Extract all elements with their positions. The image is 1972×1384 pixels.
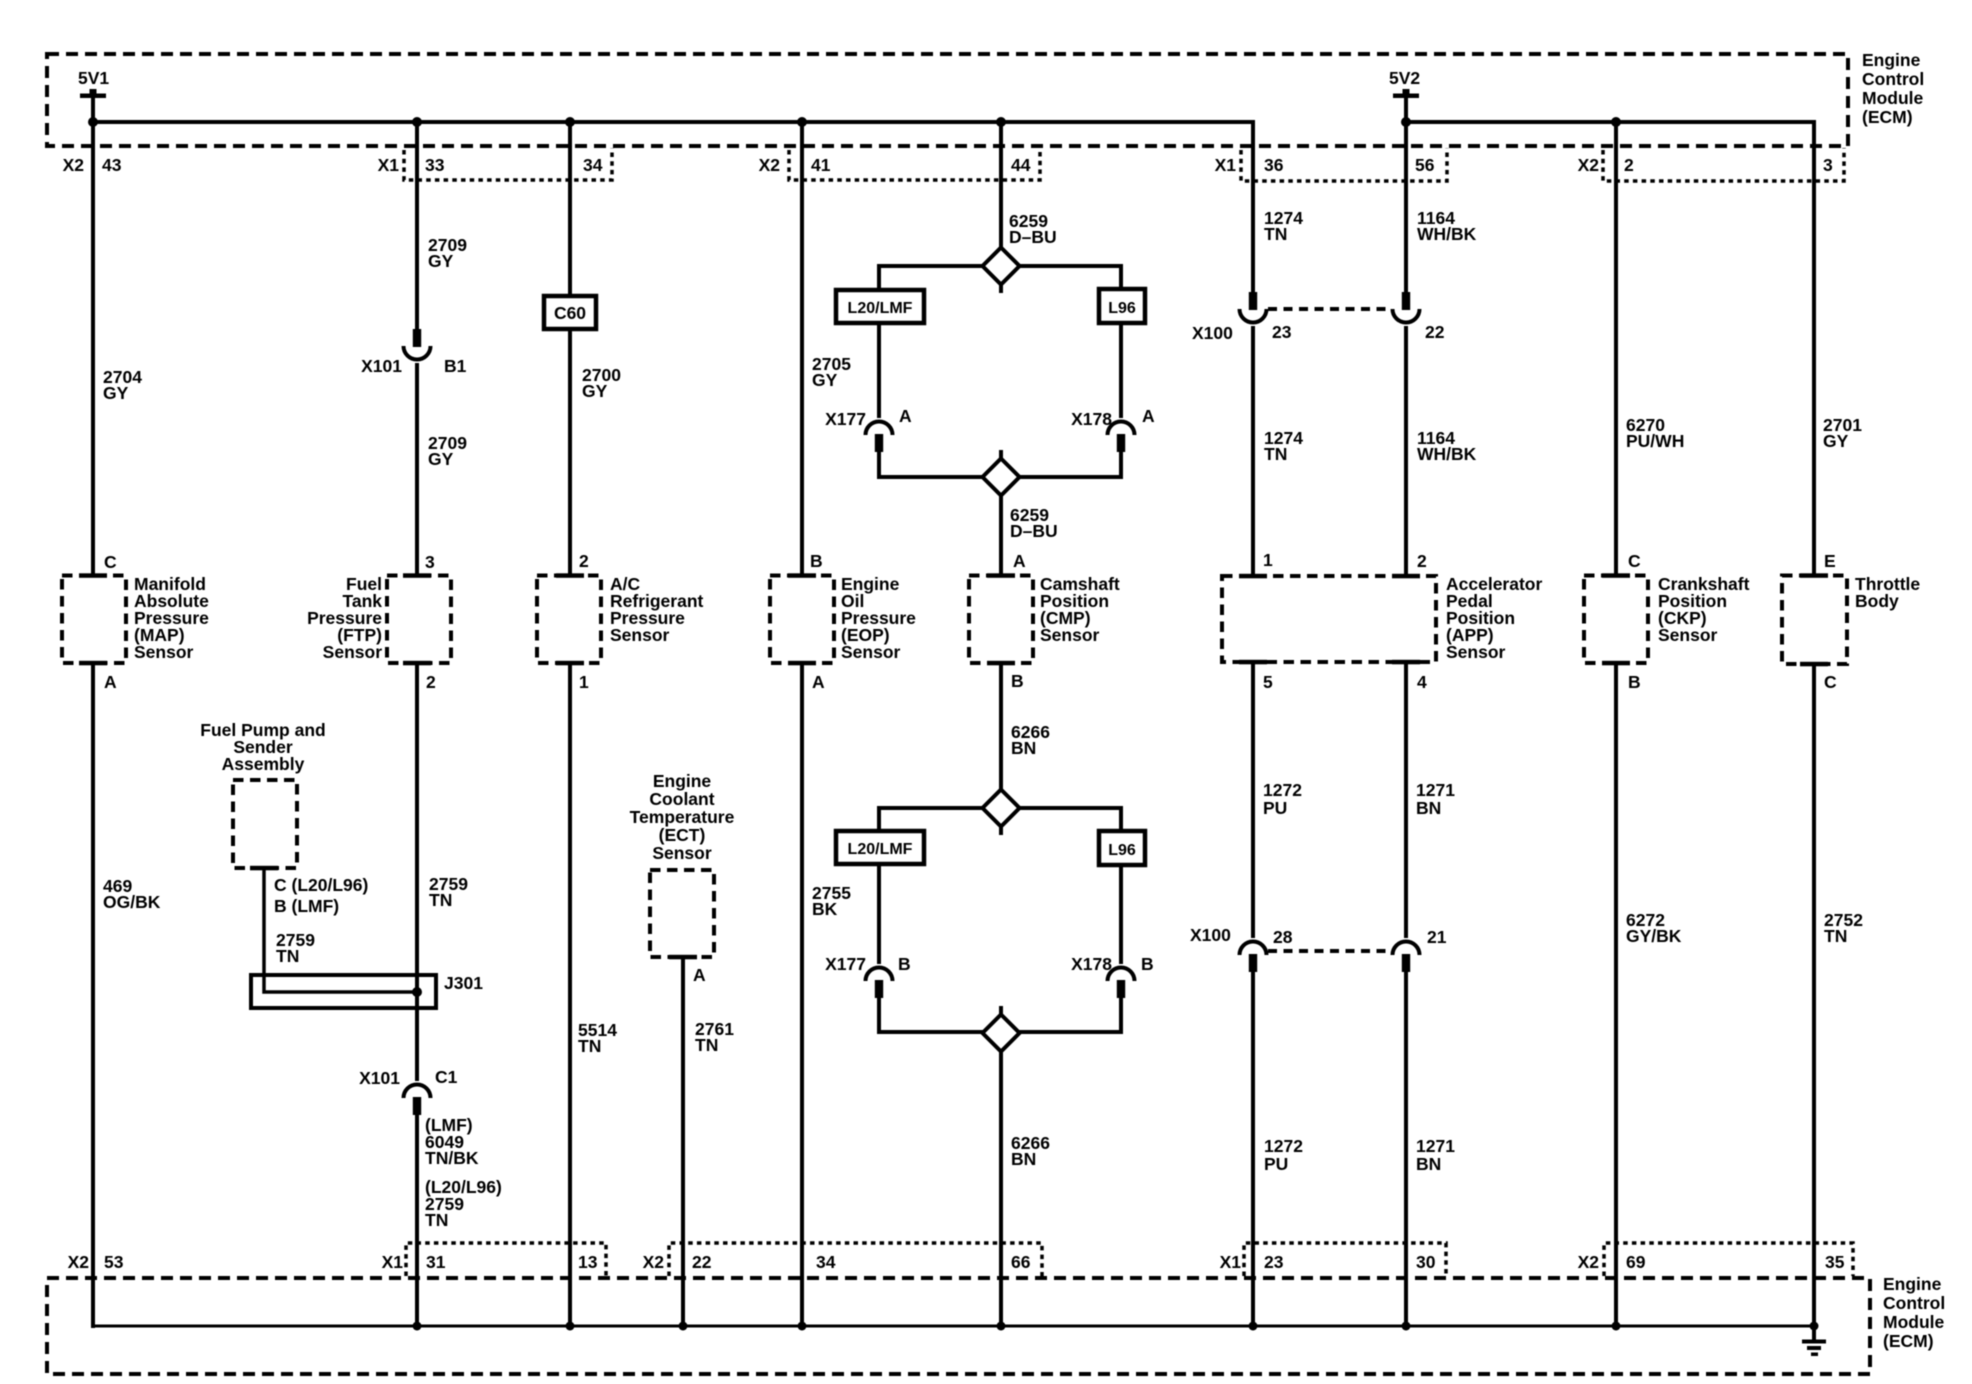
svg-text:PU/WH: PU/WH — [1626, 431, 1684, 451]
wire 5V2 feed to bus — [1404, 96, 1408, 124]
inline connector X100 pin 21 — [1393, 941, 1420, 955]
connector group dotted box pins 33-34 — [404, 148, 612, 180]
engine option box L20/LMF (upper) — [836, 290, 924, 323]
pin terminal tick CKP top — [1602, 573, 1630, 578]
pin terminal tick APP pin4 — [1392, 660, 1420, 665]
svg-text:34: 34 — [583, 155, 603, 175]
svg-text:X1: X1 — [1220, 1252, 1242, 1272]
wire from X178 B to splice diamond — [1119, 995, 1123, 1032]
pin terminal tick CMP top — [987, 573, 1015, 578]
svg-text:23: 23 — [1264, 1252, 1284, 1272]
svg-text:2: 2 — [1417, 551, 1427, 571]
svg-text:30: 30 — [1416, 1252, 1436, 1272]
svg-text:C: C — [1628, 551, 1641, 571]
wire 2700 GY from ECM pin 34 to C60 — [568, 122, 572, 298]
svg-text:GY: GY — [428, 251, 454, 271]
inline connector X100 pin 22 — [1402, 292, 1410, 310]
FTP sensor dashed box — [387, 576, 451, 664]
svg-text:B1: B1 — [444, 356, 467, 376]
svg-text:C1: C1 — [435, 1067, 458, 1087]
node junction dot bottom bus AC — [566, 1322, 575, 1331]
svg-text:Assembly: Assembly — [222, 754, 305, 774]
svg-text:A: A — [899, 406, 912, 426]
svg-text:Module: Module — [1862, 88, 1924, 108]
svg-text:(ECT): (ECT) — [659, 825, 706, 845]
svg-text:Sensor: Sensor — [1040, 625, 1100, 645]
connector group dotted box pins 36-56 — [1241, 148, 1447, 181]
bus wire from 5V2 (y=122) — [1406, 120, 1814, 124]
svg-text:C: C — [104, 552, 117, 572]
wire 5V1 feed to bus — [91, 96, 95, 124]
wire 1272 PU from X100 28 to ECM pin 23 — [1251, 969, 1255, 1328]
pin terminal tick MAP bottom — [79, 661, 107, 666]
svg-text:28: 28 — [1273, 927, 1293, 947]
inline connector X101 pin B1 — [413, 329, 421, 347]
svg-text:41: 41 — [811, 155, 831, 175]
svg-text:TN: TN — [425, 1210, 448, 1230]
node junction dot bottom bus APP4 — [1402, 1322, 1411, 1331]
throttle body dashed box — [1782, 576, 1847, 665]
node junction dot bottom bus EOP — [798, 1322, 807, 1331]
svg-text:C60: C60 — [554, 303, 586, 323]
svg-text:E: E — [1824, 551, 1836, 571]
svg-text:B: B — [898, 954, 911, 974]
svg-text:53: 53 — [104, 1252, 124, 1272]
connector group dotted box pins 69-35 — [1604, 1243, 1853, 1276]
ground wire stub — [1812, 1326, 1816, 1341]
svg-text:OG/BK: OG/BK — [103, 892, 161, 912]
svg-text:X100: X100 — [1190, 925, 1231, 945]
svg-text:TN: TN — [429, 890, 452, 910]
wire 2709 GY from X101 to FTP sensor — [415, 363, 419, 576]
node junction dot bus at EOP wire — [797, 117, 807, 127]
svg-text:Sensor: Sensor — [610, 625, 670, 645]
svg-text:GY/BK: GY/BK — [1626, 926, 1682, 946]
svg-text:B: B — [1141, 954, 1154, 974]
svg-text:56: 56 — [1415, 155, 1435, 175]
svg-text:C (L20/L96): C (L20/L96) — [274, 875, 368, 895]
svg-text:WH/BK: WH/BK — [1417, 444, 1477, 464]
svg-text:X178: X178 — [1071, 954, 1112, 974]
wire 6266 BN from CMP sensor to splice diamond — [999, 663, 1003, 835]
pin terminal tick APP pin5 — [1239, 660, 1267, 665]
wire 469 OG/BK from MAP sensor to ECM pin 53 — [91, 663, 95, 1328]
wire 1274 TN from ECM pin 36 to X100 pin 23 — [1251, 120, 1255, 293]
svg-text:TN: TN — [578, 1036, 601, 1056]
wire 2701 GY from ECM pin 3 to throttle body — [1812, 120, 1816, 575]
svg-text:B: B — [810, 551, 823, 571]
pin terminal tick MAP top — [79, 573, 107, 578]
engine option box L96 (upper) — [1099, 289, 1145, 323]
svg-text:Sensor: Sensor — [841, 642, 901, 662]
svg-text:X2: X2 — [63, 155, 85, 175]
svg-text:5V1: 5V1 — [78, 68, 109, 88]
ECM bottom module dashed box — [47, 1278, 1870, 1374]
splice diamond lower circuit 1 — [983, 459, 1020, 496]
connector C60 box — [544, 296, 596, 329]
pin terminal tick EOP bottom — [788, 661, 816, 666]
node junction dot bottom bus TB — [1810, 1322, 1819, 1331]
wire branch left lower (circuit 1) — [879, 475, 983, 477]
inline connector X177 pin B — [866, 967, 893, 981]
svg-text:PU: PU — [1263, 798, 1287, 818]
node junction dot bus at FTP wire — [412, 117, 422, 127]
svg-text:33: 33 — [425, 155, 445, 175]
pin terminal tick AC bottom — [556, 661, 584, 666]
svg-text:35: 35 — [1825, 1252, 1845, 1272]
pin terminal tick TB bottom — [1800, 662, 1828, 667]
svg-text:Engine: Engine — [653, 771, 712, 791]
wire branch left lower (circuit 2) — [879, 1030, 983, 1032]
svg-text:3: 3 — [1823, 155, 1833, 175]
svg-text:Temperature: Temperature — [630, 807, 735, 827]
svg-text:Control: Control — [1862, 69, 1924, 89]
wire 2755 BK from EOP sensor to ECM pin 34 — [800, 663, 804, 1328]
svg-text:BN: BN — [1011, 1149, 1036, 1169]
splice diamond upper circuit 1 — [983, 248, 1020, 285]
wire 2700 GY from C60 to AC sensor — [568, 329, 572, 576]
inline connector X178 pin A — [1108, 422, 1135, 436]
inline connector X101 pin C1 — [404, 1085, 431, 1099]
wire 1164 WH/BK from ECM pin 56 to X100 pin 22 — [1404, 122, 1408, 293]
wire 2752 TN from throttle body to ECM pin 35 — [1812, 664, 1816, 1328]
svg-text:44: 44 — [1011, 155, 1031, 175]
svg-text:X178: X178 — [1071, 409, 1112, 429]
svg-text:5V2: 5V2 — [1389, 68, 1420, 88]
pin terminal tick ECT bottom — [669, 955, 697, 960]
svg-text:34: 34 — [816, 1252, 836, 1272]
EOP sensor dashed box — [770, 576, 834, 664]
node junction dot 5V2 bus at APP-2 wire — [1401, 117, 1411, 127]
svg-text:X2: X2 — [1578, 1252, 1600, 1272]
wire 6272 GY/BK from CKP sensor to ECM pin 69 — [1614, 663, 1618, 1328]
svg-text:B: B — [1011, 671, 1024, 691]
svg-text:GY: GY — [428, 449, 454, 469]
wire 6259 D-BU from ECM pin 44 to splice diamond — [999, 122, 1003, 293]
pin terminal tick TB top — [1800, 573, 1828, 578]
wire branch left upper (circuit 2) — [879, 808, 983, 833]
svg-text:Engine: Engine — [1862, 50, 1921, 70]
svg-text:1272: 1272 — [1264, 1136, 1303, 1156]
wire 6266 BN from lower splice diamond to ECM pin 66 — [999, 1006, 1003, 1328]
svg-text:B: B — [1628, 672, 1641, 692]
splice diamond lower circuit 2 — [983, 1015, 1020, 1052]
svg-text:X100: X100 — [1192, 323, 1233, 343]
svg-text:GY: GY — [582, 381, 608, 401]
node junction dot bottom bus CKP — [1612, 1322, 1621, 1331]
svg-text:X2: X2 — [643, 1252, 665, 1272]
svg-text:X2: X2 — [68, 1252, 90, 1272]
svg-text:A: A — [104, 672, 117, 692]
svg-text:22: 22 — [692, 1252, 712, 1272]
svg-text:22: 22 — [1425, 322, 1445, 342]
svg-text:A: A — [1013, 551, 1026, 571]
splice diamond upper circuit 2 — [983, 790, 1020, 827]
wire 1272 PU from APP pin 5 to X100 pin 28 — [1251, 662, 1255, 938]
pin terminal tick APP pin2 — [1392, 574, 1420, 579]
svg-text:36: 36 — [1264, 155, 1284, 175]
svg-text:X1: X1 — [378, 155, 400, 175]
engine option box L96 (lower) — [1099, 831, 1145, 865]
node junction dot bottom bus APP5 — [1249, 1322, 1258, 1331]
svg-text:TN: TN — [1264, 224, 1287, 244]
svg-text:(ECM): (ECM) — [1883, 1331, 1934, 1351]
svg-text:D–BU: D–BU — [1009, 227, 1057, 247]
ECT sensor dashed box — [650, 870, 714, 957]
svg-text:A: A — [693, 965, 706, 985]
pin terminal tick CKP bottom — [1602, 661, 1630, 666]
svg-text:31: 31 — [426, 1252, 446, 1272]
MAP sensor dashed box — [62, 576, 126, 664]
pin terminal tick FTP top — [403, 573, 431, 578]
svg-text:13: 13 — [578, 1252, 598, 1272]
svg-text:23: 23 — [1272, 322, 1292, 342]
svg-text:TN: TN — [276, 946, 299, 966]
bottom return bus wire — [93, 1325, 1814, 1328]
power feed 5V2 symbol — [1393, 94, 1419, 99]
wire branch right lower (circuit 2) — [1019, 1030, 1121, 1032]
svg-text:1: 1 — [1263, 550, 1273, 570]
svg-text:BN: BN — [1011, 738, 1036, 758]
pin terminal tick EOP top — [788, 573, 816, 578]
svg-text:C: C — [1824, 672, 1837, 692]
AC refrigerant pressure sensor dashed box — [537, 576, 601, 664]
node junction dot J301 — [412, 987, 422, 997]
connector group dotted box pins 22-34-66 — [669, 1243, 1042, 1276]
wire 2705 GY from ECM pin 41 to EOP sensor — [800, 122, 804, 576]
wire 1271 BN from X100 21 to ECM pin 30 — [1404, 969, 1408, 1328]
wire 1274 TN from X100 to APP sensor pin 1 — [1251, 326, 1255, 576]
splice J301 box — [251, 975, 436, 1008]
svg-text:4: 4 — [1417, 672, 1427, 692]
connector group dotted box pins 41-44 — [789, 148, 1040, 180]
svg-text:X1: X1 — [382, 1252, 404, 1272]
svg-text:Sensor: Sensor — [1658, 625, 1718, 645]
svg-text:J301: J301 — [444, 973, 483, 993]
pin terminal tick fuel pump bottom — [250, 866, 278, 871]
wire from L20/LMF to X177 pin A — [877, 323, 881, 418]
CKP sensor dashed box — [1584, 576, 1648, 664]
pin terminal tick APP pin1 — [1239, 574, 1267, 579]
svg-text:3: 3 — [425, 552, 435, 572]
wire 1164 WH/BK from X100 to APP sensor pin 2 — [1404, 326, 1408, 576]
svg-text:1271: 1271 — [1416, 1136, 1455, 1156]
svg-text:Control: Control — [1883, 1293, 1945, 1313]
svg-text:Module: Module — [1883, 1312, 1945, 1332]
svg-text:X2: X2 — [1578, 155, 1600, 175]
svg-text:Coolant: Coolant — [649, 789, 714, 809]
svg-text:Sensor: Sensor — [134, 642, 194, 662]
svg-text:1271: 1271 — [1416, 780, 1455, 800]
node junction dot bus at CMP wire — [996, 117, 1006, 127]
svg-text:TN: TN — [1264, 444, 1287, 464]
svg-text:GY: GY — [1823, 431, 1849, 451]
engine option box L20/LMF (lower) — [836, 831, 924, 864]
wire 5514 TN from AC sensor to ECM pin 13 — [568, 663, 572, 1328]
wire from X178 A to splice diamond — [1119, 449, 1123, 477]
svg-text:PU: PU — [1264, 1154, 1288, 1174]
svg-text:L96: L96 — [1108, 300, 1136, 317]
X100 harness dashed jumper upper — [1268, 307, 1392, 311]
node junction dot 5V2 bus at CKP wire — [1611, 117, 1621, 127]
svg-text:Body: Body — [1855, 591, 1899, 611]
inline connector X100 pin 28 — [1240, 941, 1267, 955]
svg-text:43: 43 — [102, 155, 122, 175]
svg-text:GY: GY — [812, 370, 838, 390]
svg-text:X1: X1 — [1215, 155, 1237, 175]
bus wire from 5V1 (y=122) — [91, 120, 1253, 124]
svg-text:Engine: Engine — [1883, 1274, 1942, 1294]
svg-text:L96: L96 — [1108, 842, 1136, 859]
inline connector X178 pin B — [1108, 967, 1135, 981]
pin terminal tick AC top — [556, 573, 584, 578]
ground symbol — [1802, 1340, 1826, 1344]
svg-text:(ECM): (ECM) — [1862, 107, 1913, 127]
wire from L96 lower to X178 pin B — [1119, 865, 1123, 964]
svg-text:1272: 1272 — [1263, 780, 1302, 800]
svg-text:2: 2 — [426, 672, 436, 692]
svg-text:66: 66 — [1011, 1252, 1031, 1272]
node junction dot bottom bus FTP — [413, 1322, 422, 1331]
svg-text:A: A — [812, 672, 825, 692]
svg-text:2: 2 — [579, 551, 589, 571]
svg-text:D–BU: D–BU — [1010, 521, 1058, 541]
svg-text:BK: BK — [812, 899, 838, 919]
wire branch right upper (circuit 2) — [1019, 808, 1121, 833]
svg-text:TN: TN — [1824, 926, 1847, 946]
pin terminal tick FTP bottom — [403, 661, 431, 666]
node junction dot 5V1 bus at MAP wire — [88, 117, 98, 127]
power feed 5V1 symbol — [80, 94, 106, 99]
pin terminal tick CMP bottom — [987, 661, 1015, 666]
wire from L20/LMF lower to X177 pin B — [877, 864, 881, 964]
svg-text:2: 2 — [1624, 155, 1634, 175]
svg-text:X177: X177 — [825, 954, 866, 974]
svg-text:WH/BK: WH/BK — [1417, 224, 1477, 244]
svg-text:1: 1 — [579, 672, 589, 692]
inline connector X100 pin 23 — [1249, 292, 1257, 310]
svg-text:Sensor: Sensor — [652, 843, 712, 863]
wire 1271 BN from APP pin 4 to X100 pin 21 — [1404, 662, 1408, 938]
wire 2709 GY from ECM pin 33 to X101 — [415, 122, 419, 330]
wire 6270 PU/WH from ECM pin 2 to CKP sensor — [1614, 122, 1618, 576]
wire from L96 to X178 pin A — [1119, 323, 1123, 418]
inline connector X177 pin A — [866, 422, 893, 436]
Fuel Pump and Sender Assembly dashed box — [233, 780, 297, 868]
svg-text:Sensor: Sensor — [1446, 642, 1506, 662]
wire branch right lower (circuit 1) — [1019, 475, 1121, 477]
svg-text:X177: X177 — [825, 409, 866, 429]
svg-text:B (LMF): B (LMF) — [274, 896, 339, 916]
svg-text:L20/LMF: L20/LMF — [848, 841, 913, 858]
svg-text:BN: BN — [1416, 1154, 1441, 1174]
wire 2761 TN from ECT sensor to ECM pin 22 — [681, 957, 685, 1328]
wire 6049/2759 from X101 C1 to ECM pin 31 — [415, 1112, 419, 1328]
svg-text:BN: BN — [1416, 798, 1441, 818]
svg-text:69: 69 — [1626, 1252, 1646, 1272]
wire branch left upper (to L20/LMF) — [879, 266, 983, 292]
wire 6259 D-BU from lower splice diamond to CMP sensor — [999, 450, 1003, 576]
wire 2759 TN from fuel pump to splice J301 — [264, 868, 418, 992]
connector group dotted box pins 2-3 — [1603, 148, 1844, 181]
wire from X177 A to splice diamond — [877, 449, 881, 477]
wire from X177 B to splice diamond — [877, 995, 881, 1032]
svg-text:GY: GY — [103, 383, 129, 403]
ECM top module dashed box — [47, 54, 1848, 146]
CMP sensor dashed box — [969, 576, 1033, 664]
svg-text:5: 5 — [1263, 672, 1273, 692]
X100 harness dashed jumper lower — [1268, 949, 1392, 953]
node junction dot bottom bus CMP — [997, 1322, 1006, 1331]
svg-text:TN/BK: TN/BK — [425, 1148, 479, 1168]
wire branch right upper (to L96) — [1019, 266, 1121, 291]
svg-text:A: A — [1142, 406, 1155, 426]
connector group dotted box pins 31-13 — [406, 1243, 606, 1276]
svg-text:Sensor: Sensor — [323, 642, 383, 662]
wire 2759 TN from FTP sensor to X101 C1 — [415, 663, 419, 1081]
svg-text:X101: X101 — [361, 356, 402, 376]
connector group dotted box pins 23-30 — [1244, 1243, 1446, 1276]
svg-text:TN: TN — [695, 1035, 718, 1055]
APP sensor dashed box — [1222, 576, 1436, 662]
svg-text:21: 21 — [1427, 927, 1447, 947]
svg-text:L20/LMF: L20/LMF — [848, 300, 913, 317]
wire 2704 GY from ECM pin 43 to MAP sensor — [91, 122, 95, 576]
svg-text:X101: X101 — [359, 1068, 400, 1088]
node junction dot bottom bus ECT — [679, 1322, 688, 1331]
svg-text:X2: X2 — [759, 155, 781, 175]
node junction dot bus at AC wire — [565, 117, 575, 127]
